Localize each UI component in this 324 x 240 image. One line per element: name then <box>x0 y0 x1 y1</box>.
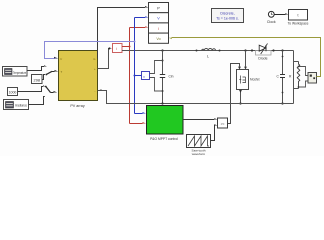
junction Cin bottom <box>161 102 163 104</box>
wire Temperature to switch S1 upper input <box>27 65 47 70</box>
svg-text:-: - <box>95 89 96 93</box>
powergui annotation box <box>212 9 244 23</box>
wire S2 to PV array Ir input <box>51 91 58 94</box>
output capacitor C <box>280 49 285 104</box>
svg-text:Clock: Clock <box>267 20 276 24</box>
svg-text:I: I <box>158 27 159 31</box>
wire clock to workspace <box>274 13 288 16</box>
svg-text:Ts = 1e-006 s.: Ts = 1e-006 s. <box>216 17 239 21</box>
constant 1000 <box>8 88 18 96</box>
svg-text:T: T <box>61 70 63 74</box>
inductor L terminal dots <box>196 50 198 52</box>
svg-text:Temperature: Temperature <box>13 71 26 75</box>
olive wire Vo: V2 output to Vo display <box>169 36 321 76</box>
svg-text:To Workspace: To Workspace <box>288 21 309 25</box>
wire drain to mosfet <box>244 51 247 70</box>
mosfet m stub arrow <box>239 90 242 93</box>
manual switch S2 <box>45 86 51 93</box>
svg-text:t: t <box>298 13 299 17</box>
svg-text:P&O MPPT control: P&O MPPT control <box>150 137 178 141</box>
gate wire from comparator to mosfet <box>228 64 241 124</box>
display stack P V I Vo <box>149 3 169 44</box>
comparator block >= <box>218 118 228 128</box>
svg-text:Irradiance: Irradiance <box>15 103 27 107</box>
top rail wire (conductor) <box>122 50 294 52</box>
svg-text:Ir: Ir <box>61 57 63 61</box>
to workspace block <box>289 10 308 21</box>
voltage measurement V2 (output) <box>298 66 317 88</box>
red signal wire i: to I display (up) and MPPT (down) <box>122 26 149 125</box>
wire S1 to PV array T input <box>52 70 58 73</box>
svg-text:298: 298 <box>34 77 41 82</box>
source block Temperature <box>3 67 28 77</box>
diode D1 <box>251 44 275 56</box>
clock block <box>268 11 274 17</box>
junction Cin top <box>161 49 163 51</box>
source block Irradiance <box>4 100 29 110</box>
PV - port arrow <box>98 89 101 92</box>
PV array block <box>59 51 98 101</box>
wire MPPT output to comparator <box>183 118 218 121</box>
wire 1000 to switch S2 upper input <box>18 85 46 91</box>
junction mosfet drain <box>244 49 246 51</box>
blue wire V signal: V1 output to V display and MPPT <box>134 16 149 115</box>
svg-text:PV array: PV array <box>70 104 85 108</box>
wire PV m output to P display (black) <box>98 8 146 59</box>
input capacitor Cin <box>160 51 165 104</box>
bottom rail wire <box>98 91 294 104</box>
svg-text:Discrete,: Discrete, <box>220 12 234 16</box>
load resistor R branch <box>294 51 300 104</box>
svg-text:waveform: waveform <box>192 152 206 156</box>
current measurement block I1 (red) <box>113 44 123 53</box>
svg-text:L: L <box>207 55 209 59</box>
voltage measurement V1 (blue box) across Cin <box>142 61 163 92</box>
violet feedback wire V to PV array input <box>45 41 136 61</box>
svg-text:>=: >= <box>221 122 225 126</box>
sawtooth generator block <box>187 135 211 148</box>
svg-text:Cin: Cin <box>169 75 174 79</box>
wire Irradiance to switch S2 lower input <box>29 97 45 105</box>
svg-text:1000: 1000 <box>9 91 17 95</box>
MPPT controller block <box>147 106 184 135</box>
wire 298 to switch S1 lower input <box>42 75 45 80</box>
wire PV + terminal to current measurement <box>98 47 113 68</box>
inductor L <box>202 49 216 51</box>
svg-text:Mosfet: Mosfet <box>250 78 260 82</box>
constant 298 <box>32 75 43 84</box>
wire sawtooth to comparator <box>211 124 218 140</box>
manual switch S1 <box>45 71 52 75</box>
svg-text:Vo: Vo <box>156 37 160 41</box>
svg-text:Diode: Diode <box>258 57 267 61</box>
mosfet Q1 block <box>237 70 249 90</box>
wire mosfet source to bottom rail <box>240 90 242 104</box>
